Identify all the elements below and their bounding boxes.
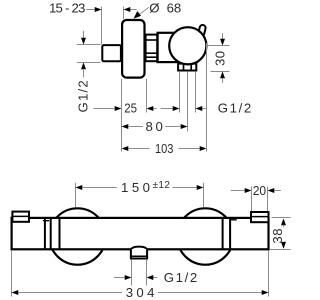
dim 20 arrows	[231, 190, 245, 192]
wall pipe (side view)	[102, 45, 121, 61]
svg-text:G1/2: G1/2	[218, 101, 253, 116]
svg-text:30: 30	[213, 50, 228, 66]
outlet connector below valve (side view)	[178, 64, 196, 71]
dim 150 arrows and line	[76, 185, 83, 190]
svg-text:150: 150	[121, 180, 150, 195]
handle lever stub	[198, 24, 207, 37]
bottom outlet G1/2 extension lines	[131, 260, 133, 286]
dim 15-23 extension line right (escutcheon rear)	[123, 7, 125, 20]
svg-text:±12: ±12	[153, 180, 171, 191]
dim 68 leader line	[136, 7, 149, 16]
G1/2 wall pipe OD extension lines (left)	[77, 44, 101, 46]
left handle joint lines	[44, 218, 46, 249]
right handle joint lines	[222, 218, 224, 249]
dim 20 extension lines	[251, 187, 253, 212]
svg-text:25: 25	[124, 101, 137, 116]
bottom outlet G1/2 arrows	[114, 277, 125, 279]
right escutcheon circle (front view)	[177, 208, 233, 264]
svg-text:38: 38	[270, 228, 285, 244]
dim 38 extension lines	[272, 217, 291, 219]
outlet G1/2 arrows (side)	[161, 108, 173, 110]
svg-text:20: 20	[253, 183, 266, 198]
svg-text:G1/2: G1/2	[164, 270, 199, 285]
dim 103 line and arrows	[122, 146, 129, 151]
dim 80 line and arrows	[122, 124, 129, 129]
dim 103 extension line right (handle front)	[206, 43, 208, 152]
dim 304 extension lines	[11, 251, 13, 297]
right union nut (front view)	[251, 212, 269, 222]
svg-text:Ø: Ø	[149, 1, 159, 16]
bottom outlet (front view)	[131, 247, 147, 250]
svg-text:G1/2: G1/2	[76, 79, 91, 112]
valve body (side view)	[158, 33, 177, 62]
left escutcheon circle (front view)	[49, 208, 105, 264]
svg-text:103: 103	[155, 141, 174, 156]
right handle tick	[231, 219, 237, 221]
dim 15-23 arrows and tails	[86, 9, 94, 11]
outlet G1/2 extension lines (side)	[179, 71, 181, 112]
dim 150 extension lines	[75, 183, 77, 208]
dim 68 leader arrowhead	[134, 11, 141, 19]
G1/2 left arrows	[83, 31, 85, 39]
union nut facet lines	[145, 39, 158, 41]
dim 30 extension lines right	[207, 45, 230, 47]
dim 25 extension lines	[121, 79, 123, 152]
left union nut (front view)	[12, 212, 29, 222]
dim 15-23 extension line left (pipe rear)	[101, 7, 103, 45]
dim 38 arrows	[281, 219, 286, 226]
svg-text:304: 304	[126, 285, 155, 300]
dim 30 arrows	[222, 33, 224, 39]
left handle tick	[43, 220, 49, 222]
svg-text:15 - 23: 15 - 23	[49, 1, 85, 16]
escutcheon (side view)	[122, 20, 144, 78]
dim 25 arrows	[93, 108, 114, 110]
union nut (side view)	[146, 35, 158, 62]
mixer bar body (front view)	[12, 218, 269, 249]
handle knob circle (side view)	[169, 27, 206, 64]
svg-text:68: 68	[167, 1, 182, 16]
dim 304 line and arrows	[12, 290, 19, 295]
